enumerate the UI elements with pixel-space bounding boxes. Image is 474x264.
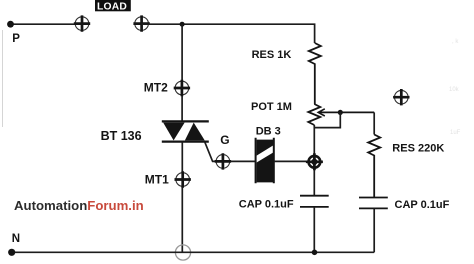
svg-text:G: G — [220, 133, 229, 147]
svg-text:DB 3: DB 3 — [256, 126, 281, 138]
triac Q1 BT136 — [162, 121, 209, 141]
gray junction ring — [175, 245, 190, 260]
wire diac to node — [274, 160, 315, 162]
load terminal crosshair left — [74, 15, 90, 31]
terminal N dot — [8, 249, 15, 256]
svg-text:LOAD: LOAD — [97, 2, 127, 13]
terminal P dot — [7, 21, 14, 28]
load label LOAD — [95, 0, 131, 13]
potentiometer POT 1M — [308, 104, 320, 125]
wire wiper to R2 — [373, 112, 375, 134]
crosshair G — [215, 153, 231, 169]
svg-text:AutomationForum.in: AutomationForum.in — [14, 198, 144, 213]
wire MT1 drop — [181, 142, 183, 253]
svg-text:MT2: MT2 — [144, 81, 168, 95]
node wiper dot — [338, 110, 343, 115]
capacitor C1 — [300, 196, 329, 253]
svg-text:CAP 0.1uF: CAP 0.1uF — [239, 199, 294, 211]
resistor R2 RES 220K — [368, 135, 380, 198]
svg-text:MT1: MT1 — [145, 173, 169, 187]
svg-text:POT 1M: POT 1M — [251, 101, 292, 113]
crosshair MT2 — [174, 80, 190, 96]
wire wiper loop — [314, 112, 340, 127]
wire MT2 drop — [181, 24, 183, 121]
svg-text:CAP 0.1uF: CAP 0.1uF — [395, 199, 450, 211]
load terminal crosshair right — [133, 15, 149, 31]
svg-text:, k: , k — [452, 39, 459, 45]
svg-text:RES 1K: RES 1K — [252, 49, 292, 61]
svg-text:P: P — [12, 33, 20, 45]
diac D1 DB3 — [256, 138, 274, 183]
node junction top — [180, 22, 185, 27]
svg-text:1uF: 1uF — [450, 130, 461, 136]
wiper arrow — [318, 109, 374, 116]
svg-text:10k: 10k — [449, 87, 460, 93]
capacitor C2 — [359, 198, 388, 253]
left edge artifact — [2, 30, 4, 127]
svg-text:N: N — [12, 233, 20, 245]
wire bottom — [12, 251, 375, 253]
wire pot branch vertical — [313, 125, 315, 196]
junction node marker — [306, 153, 323, 170]
wire top — [142, 24, 315, 43]
wire P to load — [10, 23, 82, 25]
svg-text:BT 136: BT 136 — [101, 129, 142, 143]
svg-text:RES 220K: RES 220K — [392, 142, 444, 154]
resistor R1 RES 1K — [309, 43, 321, 104]
crosshair isolated — [393, 89, 409, 105]
crosshair MT1 — [175, 171, 191, 187]
wire gate — [205, 142, 256, 162]
node bottom junction — [312, 250, 318, 256]
